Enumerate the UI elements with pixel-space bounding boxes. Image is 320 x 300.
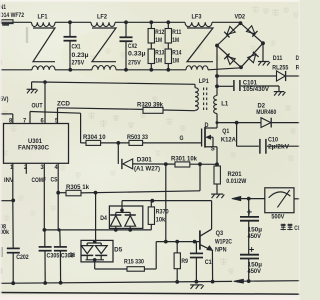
svg-text:0.01/2W: 0.01/2W [226, 179, 246, 185]
svg-text:R370: R370 [156, 209, 170, 215]
svg-text:R304 10: R304 10 [83, 135, 106, 141]
svg-text:R320 39k: R320 39k [137, 102, 164, 108]
svg-text:VD2: VD2 [235, 14, 246, 20]
svg-text:INV: INV [4, 178, 14, 184]
svg-text:D14 WF72: D14 WF72 [0, 13, 25, 19]
svg-text:C10: C10 [268, 137, 279, 143]
svg-text:R301 10k: R301 10k [171, 157, 198, 163]
svg-text:R9: R9 [181, 259, 188, 265]
svg-text:L1: L1 [221, 102, 229, 108]
svg-text:COMF: COMF [32, 178, 47, 184]
svg-text:2µ/2kV: 2µ/2kV [268, 145, 289, 151]
svg-text:500V: 500V [271, 214, 284, 220]
svg-text:LF3: LF3 [192, 15, 203, 21]
svg-text:D2: D2 [258, 103, 266, 109]
svg-text:LP1: LP1 [199, 79, 210, 85]
svg-text:D301: D301 [137, 157, 153, 163]
svg-text:R14: R14 [172, 50, 182, 56]
svg-text:K12A: K12A [221, 138, 237, 144]
svg-text:R12: R12 [155, 30, 165, 36]
svg-text:ZCD: ZCD [57, 102, 71, 108]
svg-text:1M: 1M [155, 59, 162, 65]
svg-text:D5: D5 [114, 248, 123, 254]
svg-text:R11: R11 [172, 30, 182, 36]
svg-text:R503 33: R503 33 [127, 135, 149, 141]
svg-text:1M: 1M [172, 38, 179, 44]
svg-text:450V: 450V [248, 269, 262, 275]
svg-text:C306: C306 [61, 253, 74, 259]
svg-text:NPN: NPN [215, 247, 227, 253]
svg-text:Q3: Q3 [216, 231, 224, 237]
svg-text:0.33µ: 0.33µ [128, 51, 146, 57]
svg-text:(A1 W27): (A1 W27) [134, 166, 160, 172]
svg-text:CS: CS [51, 178, 58, 184]
svg-text:C202: C202 [16, 255, 29, 261]
svg-text:R15 330: R15 330 [124, 259, 145, 265]
svg-text:D11: D11 [273, 56, 283, 62]
svg-text:LF2: LF2 [97, 15, 108, 21]
svg-text:W1P2C: W1P2C [215, 239, 233, 245]
svg-text:CX1: CX1 [72, 45, 82, 51]
svg-text:105/430V: 105/430V [243, 87, 269, 93]
svg-text:S: S [211, 147, 215, 153]
svg-text:150µ: 150µ [248, 263, 263, 269]
svg-text:OUT: OUT [32, 103, 43, 109]
svg-text:10k: 10k [156, 218, 166, 224]
svg-text:FAN7930C: FAN7930C [18, 146, 50, 152]
svg-text:MUR460: MUR460 [256, 110, 277, 116]
svg-text:0.23µ: 0.23µ [72, 53, 90, 59]
svg-text:RL255: RL255 [272, 65, 289, 71]
svg-text:D4: D4 [100, 216, 107, 222]
svg-text:R305 1k: R305 1k [66, 185, 90, 191]
svg-text:150µ: 150µ [248, 227, 263, 233]
svg-text:275V: 275V [128, 61, 141, 67]
svg-text:C305: C305 [47, 253, 60, 259]
svg-text:R13: R13 [155, 50, 165, 56]
svg-text:C1: C1 [205, 260, 213, 266]
svg-text:275V: 275V [72, 61, 85, 67]
svg-text:Q1: Q1 [222, 129, 230, 135]
svg-text:D: D [205, 123, 210, 129]
svg-text:450V: 450V [248, 234, 262, 240]
svg-text:U301: U301 [28, 139, 43, 145]
svg-text:1M: 1M [155, 38, 162, 44]
svg-text:CX2: CX2 [128, 44, 138, 50]
svg-text:LF1: LF1 [38, 15, 49, 21]
svg-text:C101: C101 [243, 81, 258, 87]
svg-text:G: G [180, 136, 184, 142]
svg-text:1M: 1M [172, 59, 179, 65]
svg-text:R201: R201 [228, 172, 243, 178]
